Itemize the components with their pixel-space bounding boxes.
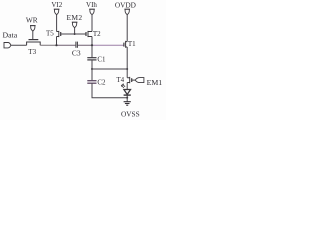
wire WR stem: [32, 31, 34, 39]
svg-text:T4: T4: [116, 76, 124, 84]
svg-text:OVDD: OVDD: [115, 0, 136, 9]
wire node line to right column: [92, 68, 127, 70]
capacitor C2: [87, 81, 96, 84]
wire EM2 stem: [74, 28, 76, 34]
emission arrows: [121, 84, 125, 88]
wire VIh stem: [91, 15, 93, 32]
svg-text:C2: C2: [97, 79, 106, 87]
wire to ground: [126, 98, 128, 102]
wire C1 to node: [91, 60, 93, 69]
junction T2-rail: [91, 44, 93, 46]
wire Data to T3: [11, 44, 27, 46]
svg-text:T2: T2: [93, 30, 101, 38]
junction node right: [126, 68, 128, 70]
wire T2 down to C1: [91, 45, 93, 58]
port Data flag: [4, 43, 11, 48]
svg-text:C1: C1: [97, 55, 106, 63]
svg-text:EM1: EM1: [147, 78, 163, 87]
junction node left: [91, 68, 93, 70]
wire T1 drain down to node: [126, 47, 128, 69]
svg-text:C3: C3: [72, 49, 81, 58]
wire T5 drain down to rail: [56, 37, 58, 46]
svg-text:T1: T1: [128, 40, 136, 48]
svg-text:Data: Data: [2, 30, 17, 39]
wire T2 drain down to rail: [91, 37, 93, 46]
port VIh terminal: [89, 9, 95, 15]
wire rail T2 to T1 gate (purple): [92, 44, 124, 46]
wire gate line EM2 net: [61, 33, 86, 35]
transistor T2: [86, 31, 92, 37]
wire VI2 stem: [56, 15, 58, 32]
port WR terminal: [30, 26, 36, 32]
capacitor C1: [87, 58, 96, 60]
wire rail T5 to C3: [57, 44, 92, 46]
wire T4 to OLED: [126, 83, 128, 90]
port OVDD terminal: [124, 9, 130, 15]
wire node down to C2: [91, 69, 93, 81]
svg-text:T5: T5: [46, 30, 54, 38]
wire C2 down and right to OLED cathode: [92, 83, 127, 98]
wire OVDD stem: [126, 15, 128, 42]
ground OVSS symbol: [124, 102, 131, 106]
wire T3 to T5 junction: [40, 44, 57, 46]
transistor T5: [57, 31, 61, 37]
port VI2 terminal: [54, 9, 60, 15]
svg-text:VIh: VIh: [86, 1, 97, 9]
svg-text:OVSS: OVSS: [121, 110, 140, 119]
capacitor C3: [76, 42, 78, 48]
junction EM2 stem: [74, 33, 76, 35]
svg-text:VI2: VI2: [51, 1, 62, 9]
svg-text:WR: WR: [26, 16, 38, 25]
wire node to T4: [126, 69, 128, 78]
svg-text:T3: T3: [28, 48, 36, 56]
transistor T1: [124, 41, 127, 48]
svg-text:EM2: EM2: [67, 13, 83, 22]
transistor T4: [127, 77, 135, 83]
junction T5-rail: [55, 44, 57, 46]
port EM1 flag: [135, 78, 144, 83]
transistor T3: [27, 40, 41, 46]
port EM2 terminal: [72, 22, 78, 28]
junction OLED cathode node: [126, 97, 128, 99]
diode OLED: [124, 90, 131, 98]
